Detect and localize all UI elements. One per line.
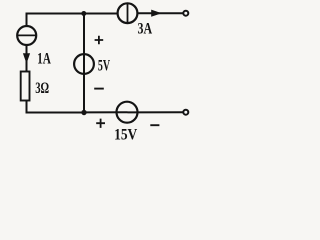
minus sign of 15V	[150, 124, 159, 126]
minus sign of 5V	[94, 88, 104, 90]
wire bottom rail: node through 15V source to bottom-right terminal	[84, 111, 183, 113]
arrowhead of I1 pointing down	[23, 53, 30, 63]
terminal (top right, open circle)	[183, 11, 188, 16]
current source I2 (3A) circle with vertical bar	[118, 3, 138, 23]
current source I1 (1A) circle with horizontal bar	[17, 26, 36, 45]
voltage source U2 (15V) circle, wire passes through	[117, 102, 138, 123]
plus sign of 15V	[96, 119, 105, 128]
svg-text:15V: 15V	[114, 127, 138, 144]
svg-text:5V: 5V	[98, 57, 111, 74]
node dot at bottom junction	[81, 110, 86, 115]
arrowhead of I2 pointing right	[151, 10, 162, 17]
wire from resistor R1 bottom down to bottom rail	[27, 101, 85, 113]
wire middle branch: top node down through 5V source to bottom node	[83, 14, 85, 113]
node dot at top junction	[81, 11, 86, 16]
wire from 3A source to top-right terminal	[137, 12, 183, 14]
terminal (bottom right, open circle)	[183, 110, 188, 115]
svg-text:3A: 3A	[138, 20, 153, 37]
wire from 1A source bottom to resistor R1	[26, 45, 28, 72]
svg-text:3Ω: 3Ω	[35, 80, 49, 97]
voltage source U1 (5V) circle, wire passes through	[74, 54, 94, 74]
wire top rail: node to 3A source	[82, 13, 118, 15]
wire from 1A source top, up and right to top node	[27, 14, 83, 28]
plus sign of 5V	[95, 36, 104, 45]
svg-text:1A: 1A	[37, 51, 51, 68]
resistor R1 (3 ohm)	[21, 72, 30, 101]
